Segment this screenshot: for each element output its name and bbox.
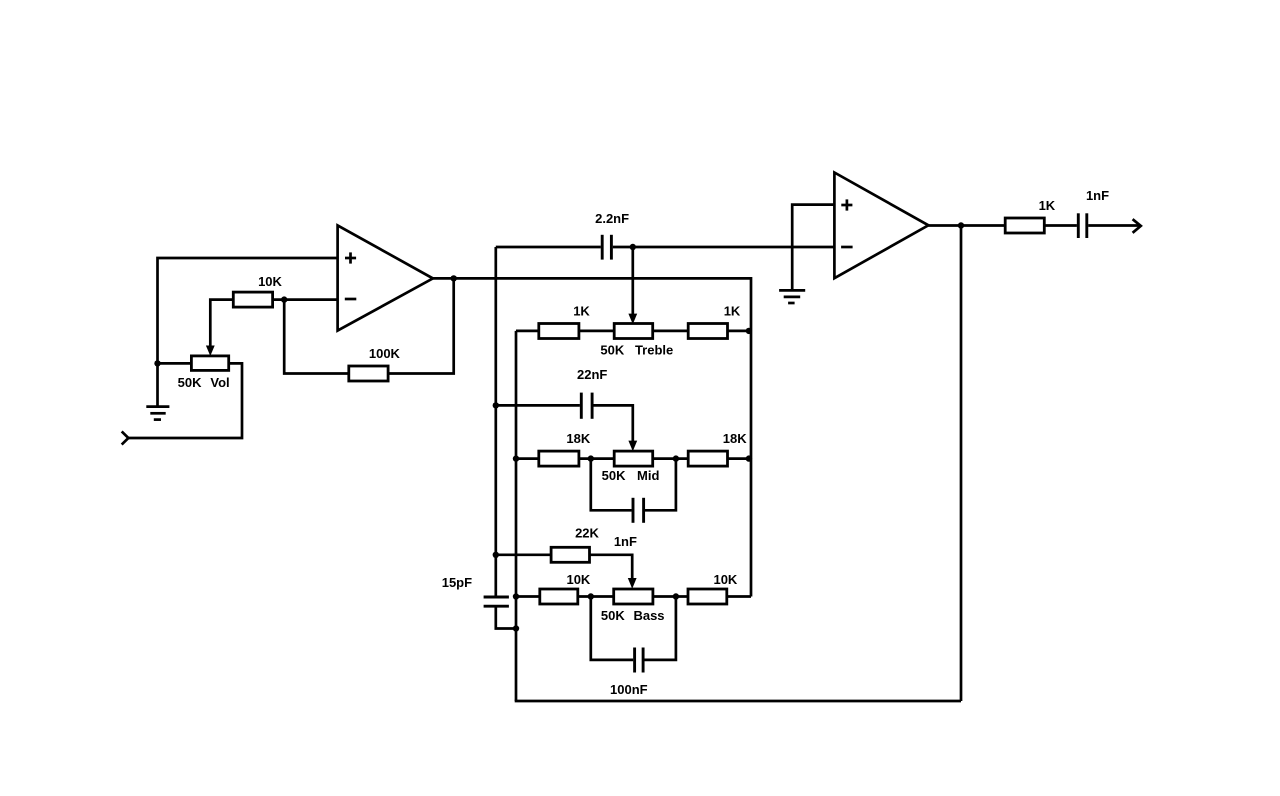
node I: mid cap left junction [588,455,594,461]
wire treble row [516,330,751,333]
node C: U1 output [451,275,457,281]
potentiometer Vol 50K body [191,356,228,371]
ground GND2 [779,290,805,303]
wire mid bypass cap left leg [591,459,632,511]
node K: 22K tap on left outer rail [493,552,499,558]
wire left outer rail [494,247,497,597]
op-amp U2 minus sign [841,246,853,249]
label Treble 50K Treble [600,342,673,357]
svg-text:50K: 50K [601,608,625,623]
svg-text:15pF: 15pF [442,575,472,590]
svg-text:1K: 1K [1039,198,1056,213]
resistor R7 22K body [551,547,589,562]
capacitor C5 100nF [635,648,644,673]
node D: treble wiper junction [630,244,636,250]
wire left inner rail [515,331,518,701]
capacitor C1 2.2nF [602,235,611,260]
node A: Vol left / ground [154,360,160,366]
node J: mid cap right junction [673,455,679,461]
wire C6 bottom to inner rail [496,606,516,628]
node P: U2 output [958,222,964,228]
wire input to Vol pot bottom [128,363,242,438]
capacitor C7 1nF [1078,213,1087,238]
svg-text:1nF: 1nF [1086,188,1109,203]
node M: bass cap left junction [588,593,594,599]
wire bottom return [515,700,961,703]
wire C1 to U2 inverting input [613,246,835,249]
svg-text:Bass: Bass [633,608,664,623]
wire feedback left leg [284,300,349,374]
svg-text:1K: 1K [724,304,741,319]
wire U1 output to tone stack right rail [433,278,751,596]
svg-text:1K: 1K [573,304,590,319]
output arrowhead [1133,219,1141,233]
wire R7 to bass wiper [590,555,633,579]
op-amp U2 plus sign [841,199,852,210]
resistor R1 10K body [233,292,272,307]
svg-text:50K: 50K [600,342,624,357]
node E: treble right [746,328,752,334]
wire mid row [516,457,751,460]
wire R1 to inverting input [273,298,338,301]
potentiometer Mid 50K body [614,451,653,466]
wire 10K to Vol wiper [210,300,233,347]
svg-text:10K: 10K [713,572,737,587]
wire R10 to C7 [1044,224,1077,227]
resistor R8 10K body [540,589,578,604]
label Vol 50K Vol [178,375,230,390]
svg-text:22K: 22K [575,526,599,541]
treble wiper arrowhead [628,314,637,325]
node H: mid right [746,455,752,461]
wire bass row [516,595,751,598]
label Bass 50K Bass [601,608,665,623]
svg-text:50K: 50K [178,375,202,390]
wire feedback right leg to output [388,278,454,373]
resistor R5 18K body [539,451,579,466]
op-amp U2 [834,173,928,279]
wire bass bypass cap right leg [645,597,676,660]
wire C2 to mid wiper [594,405,633,441]
wire bass bypass cap left leg [591,597,633,660]
svg-text:18K: 18K [723,431,747,446]
capacitor C2 22nF [581,393,592,419]
resistor R3 1K body [539,324,579,339]
node G: mid row left [513,455,519,461]
wire 2.2nF left lead [496,246,601,249]
potentiometer Bass 50K body [614,589,653,604]
svg-text:10K: 10K [566,572,590,587]
input terminal J1 [122,431,129,444]
svg-text:1nF: 1nF [614,534,637,549]
node L: bass row left [513,593,519,599]
svg-text:100nF: 100nF [610,682,648,697]
capacitor C6 15pF [484,597,509,606]
svg-text:18K: 18K [566,431,590,446]
op-amp U1 [338,225,433,330]
svg-text:22nF: 22nF [577,367,607,382]
node O: 15pF return junction [513,625,519,631]
op-amp U1 plus sign [345,252,356,263]
resistor R9 10K body [688,589,727,604]
label Mid 50K Mid [602,468,660,483]
wire U2 non-inverting input to ground [792,205,834,289]
mid wiper arrowhead [628,441,637,452]
wire 22K left lead [496,553,551,556]
wire output lead [1088,224,1138,227]
wire mid bypass cap right leg [645,459,676,511]
svg-text:100K: 100K [369,346,401,361]
svg-text:2.2nF: 2.2nF [595,211,629,226]
svg-text:Vol: Vol [210,375,229,390]
svg-text:Treble: Treble [635,342,673,357]
capacitor C3 mid bypass [633,498,644,523]
wire Vol left to ground node [158,363,192,406]
svg-text:50K: 50K [602,468,626,483]
wire right return rail [960,226,963,702]
wire treble wiper drop [631,247,634,314]
resistor R10 1K body [1005,218,1044,233]
resistor R6 18K body [688,451,727,466]
Vol wiper arrowhead [206,346,215,357]
wire U2 output [928,224,1005,227]
wire node up to non-inverting input [158,258,338,364]
potentiometer Treble 50K body [614,324,653,339]
resistor R2 100K body [349,366,388,381]
wire 22nF left lead [496,404,580,407]
bass wiper arrowhead [628,578,637,589]
node N: bass cap right junction [673,593,679,599]
ground GND1 [146,407,169,420]
resistor R4 1K body [688,324,727,339]
svg-text:Mid: Mid [637,468,659,483]
node F: 22nF tap on left outer rail [493,402,499,408]
op-amp U1 minus sign [345,298,357,301]
node B: inverting input junction [281,296,287,302]
svg-text:10K: 10K [258,274,282,289]
